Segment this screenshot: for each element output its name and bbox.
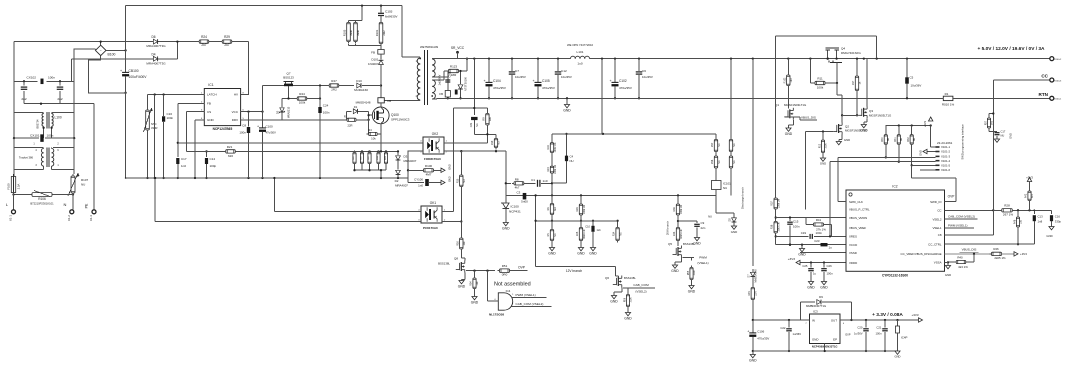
wire CAB_COM (VSEL2) row [945,215,978,220]
svg-text:R17: R17 [852,80,855,85]
svg-text:NU: NU [718,143,721,147]
svg-text:R25: R25 [576,231,579,236]
svg-text:GND: GND [577,252,585,256]
capacitor C3 5n00 [516,191,528,204]
svg-text:+: + [609,79,611,83]
wire AC leg2 down [71,59,73,82]
resistor R19 NU [491,134,501,152]
svg-text:100p: 100p [210,164,217,168]
svg-text:FB: FB [371,51,375,55]
svg-text:R45: R45 [748,291,751,296]
wire aux VCC row [263,84,329,86]
svg-text:C101: C101 [449,71,452,78]
svg-text:R46: R46 [993,247,999,251]
wire XRES row with C19 [776,231,846,239]
capacitor CX102 100n [14,76,74,84]
svg-text:X101-5: X101-5 [941,164,950,168]
svg-text:C102: C102 [619,79,627,83]
transistor Q1 MGSF1N03LT1G (discharge) [775,59,807,120]
gnd Q1 source [785,120,794,136]
svg-text:+ 3.3V / 0.08A: + 3.3V / 0.08A [872,312,903,318]
resistor R38 10k0 1% (VMON lo) [771,209,781,245]
svg-text:100k: 100k [630,297,632,303]
terminal PE X1-3 [85,104,97,221]
svg-text:~: ~ [100,49,102,53]
snubber resistor R101 2M2 [375,21,386,46]
svg-text:FOD8170A0: FOD8170A0 [424,157,441,161]
wire col 155 LATCH to gnd bus [154,95,156,180]
shunt regulator IC100 NCP431 [501,195,521,230]
label IC101 NU [708,181,731,219]
wire OK2 pin3 left stub [407,151,421,183]
svg-text:EXP: EXP [846,334,851,337]
resistor R45 22R [748,277,758,320]
svg-text:4k3 1%: 4k3 1% [958,265,968,269]
wire FB opto feedback row [178,142,421,144]
wire X101-5 SWD_IO/OVP route [912,165,956,201]
wire 12V-branch divider row [534,194,617,266]
svg-text:C105: C105 [542,79,550,83]
svg-text:18R: 18R [451,73,457,77]
svg-text:100n: 100n [47,134,54,138]
net arrow GND (CY100) [441,176,451,184]
resistor R30 NU [882,126,890,159]
svg-text:1n0: 1n0 [418,184,423,188]
svg-text:N: N [64,202,67,207]
svg-text:69k8 1%: 69k8 1% [583,228,586,238]
resistor R9 1k0 [481,108,492,134]
svg-text:C100: C100 [266,125,274,129]
capacitor C7 10u/35V [509,59,526,100]
svg-text:+3V3: +3V3 [1020,252,1027,256]
wire CC_CTRL row [945,243,1035,245]
svg-text:GND: GND [749,359,757,363]
optocoupler OK1 PC8170A0 [418,201,446,230]
svg-text:MGSF1N03LT1G: MGSF1N03LT1G [869,113,892,117]
svg-text:GND: GND [895,355,901,359]
transistor Q6 BSS138L (CAB_COM) [605,267,636,288]
wire VBUS rail (secondary main) [448,57,571,59]
resistor R33 84k5 1% [673,220,683,246]
resistor R46 2k05 1% [989,247,1027,260]
svg-text:PE: PE [85,203,89,208]
resistor R40 4k3 1% [947,254,974,269]
svg-text:C20: C20 [857,326,863,330]
svg-text:100k 1%: 100k 1% [583,204,586,214]
svg-text:VDDD: VDDD [849,261,857,265]
svg-text:R28: R28 [1004,204,1010,208]
svg-text:GND: GND [785,132,793,136]
wire OK1 pin2 down [446,222,461,239]
svg-text:C15: C15 [793,219,799,223]
svg-text:Tracket 386: Tracket 386 [19,156,34,160]
svg-text:IC4P: IC4P [901,336,907,340]
svg-text:+: + [483,79,485,83]
svg-text:NU: NU [708,215,712,219]
capacitor C21 100n [876,320,888,352]
svg-text:EP: EP [833,337,837,341]
svg-text:R105: R105 [343,29,347,36]
svg-text:100R 1%: 100R 1% [554,142,557,153]
wire Q2 gate from IC2 col [806,130,834,209]
wire AC leg1 down [13,42,15,82]
svg-text:+: + [120,69,122,73]
svg-text:470u/35V: 470u/35V [493,86,506,90]
svg-text:C9: C9 [701,221,705,225]
svg-text:(VSEL2): (VSEL2) [635,290,646,294]
transistor Q5 BSS138L (PWM) [668,242,695,257]
svg-text:VBUS_VMON: VBUS_VMON [849,216,867,220]
svg-text:150: 150 [1019,219,1022,224]
gnd Q2 source [836,135,850,145]
svg-text:R48: R48 [1013,219,1016,224]
wire col 602 to sense row [601,59,603,134]
primary GND bus [125,177,408,179]
svg-text:+: + [747,329,749,333]
svg-text:100n: 100n [816,231,823,235]
svg-text:NU: NU [498,141,501,145]
svg-text:390k: 390k [356,29,360,35]
svg-text:RTN: RTN [1039,92,1049,97]
wire PE row [24,103,94,105]
fuse F100 2.5A [7,174,21,194]
connector X101 23-23-2061 header [936,141,953,172]
terminal X100-3 CC [1041,73,1062,82]
svg-text:CX102: CX102 [27,76,37,80]
svg-text:C1: C1 [531,178,535,182]
wire Q4 bypass loop [776,36,877,58]
resistor R21 620 [186,145,354,158]
resistor R48 150 1% [1013,210,1022,245]
capacitor CB100 100uF/400V [120,50,147,92]
svg-text:X100-1: X100-1 [1054,99,1062,101]
wire VCCD/gnd row [776,244,846,246]
svg-text:R54: R54 [470,281,473,286]
svg-text:CYPD1132-16S00: CYPD1132-16S00 [882,274,908,278]
wire VSSA gnd [945,262,952,277]
svg-text:R4: R4 [368,128,372,132]
svg-text:D4: D4 [151,52,155,56]
wire opto feed join [474,133,496,135]
svg-text:SWD_CLK: SWD_CLK [849,200,863,204]
diode D100 NTST30100 (sync rect) [455,70,468,100]
capacitor C8 100n [239,112,250,178]
wire HV startup to IC1 HV pin [241,42,249,95]
svg-text:C106: C106 [757,330,764,334]
varistor R107 NU [68,173,89,196]
discharge col from VBUS [730,59,732,139]
wire IC1 VCC row [241,110,264,112]
svg-text:C16: C16 [167,112,173,116]
svg-text:R8: R8 [515,178,519,182]
svg-text:100k 1%: 100k 1% [777,198,780,208]
svg-text:NU: NU [733,143,736,147]
net label VBUS_DIS (Q1 gate) [784,116,817,120]
svg-text:GND: GND [731,230,737,234]
diode D7 MMSD4148 [748,269,758,283]
svg-text:+3V3: +3V3 [912,313,919,317]
svg-text:GND: GND [844,138,850,142]
svg-text:267 1%: 267 1% [1003,212,1014,216]
net arrow OVP (SWD_IO) [945,194,957,201]
svg-text:100n: 100n [167,116,174,120]
svg-text:VCC: VCC [232,110,239,114]
gnd IC3 rail [749,351,757,363]
svg-text:1u/36V: 1u/36V [793,332,802,336]
svg-text:Q6: Q6 [605,276,609,280]
snubber resistor R105 390k [343,6,363,44]
text Discharge branch [741,187,745,209]
svg-text:MRA4007T3G: MRA4007T3G [146,44,166,48]
resistor R1 R010 1% [934,92,1050,107]
gnd Q6 source [610,288,622,304]
wire secondary top to VBUS rail [437,59,448,80]
svg-text:GND: GND [688,290,696,294]
svg-text:GND: GND [458,285,466,289]
logic gate IC4 NL17SG08 [488,271,513,317]
resistor R13 100k (Q2 gate pulldown) [819,132,827,166]
capacitor C10 12n [585,220,601,256]
resistor bank CS sense R48 R49 R50 R52 R53 [353,151,388,166]
svg-text:X1-2: X1-2 [67,215,71,221]
resistor R11 100k [813,76,838,89]
svg-text:10u/35V: 10u/35V [515,75,526,79]
resistor R6 3k2 [547,195,557,220]
svg-text:22n: 22n [701,226,706,230]
capacitor C16 100n [162,95,174,180]
svg-text:C16: C16 [1055,214,1061,218]
svg-text:MRA5215: MRA5215 [287,106,291,118]
terminal L X1-1 [6,193,16,221]
svg-text:X1-1: X1-1 [9,215,13,221]
capacitor C5 10u/36V [905,59,921,100]
transistor Q8 BSS138L (OVP) [438,256,465,273]
svg-text:R55: R55 [688,270,690,275]
svg-text:R13: R13 [819,143,821,148]
divider col R23 100k 1% [547,164,557,195]
svg-text:L101: L101 [577,50,584,54]
svg-text:GND: GND [820,286,828,290]
wire 12V branch row [536,267,616,273]
wire bridge left vertex to AC cap row [74,49,95,81]
svg-text:R107: R107 [81,178,89,182]
svg-text:HV: HV [234,93,238,97]
svg-text:4k7: 4k7 [515,185,520,189]
wire DRV row [241,119,282,121]
svg-text:NU: NU [1001,134,1005,138]
node junction D4 cathode to line1 [176,40,178,58]
capacitor C16b 330p [1046,210,1061,238]
svg-text:VBUS_DIS: VBUS_DIS [962,248,977,252]
resistor R25 69k8 1% [576,220,586,256]
wire IC1 CS row [186,112,204,152]
svg-text:SWD programming interface: SWD programming interface [961,124,965,160]
diode D9 MMBD0307T1G [800,295,852,321]
svg-text:R38: R38 [771,224,774,229]
svg-text:R47: R47 [331,79,337,83]
resistor R2 22R [344,114,370,127]
svg-text:NU: NU [361,156,363,160]
wire Q6 CAB_COM row [623,283,655,293]
svg-text:NU: NU [619,232,622,236]
resistor R41 27k 1% [806,218,831,237]
svg-text:GND: GND [471,301,479,305]
svg-text:B72210P2301K101: B72210P2301K101 [30,202,54,206]
resistor R123 18R [444,57,468,76]
svg-text:VSSA: VSSA [934,261,942,265]
svg-text:D9: D9 [819,295,823,299]
svg-text:FB: FB [439,92,443,96]
wire primary bottom pin [384,99,420,101]
wire VBUS_DIS net (CC_VREF row) [945,248,992,256]
svg-text:BSS123: BSS123 [283,76,294,80]
svg-text:R18: R18 [547,145,550,150]
svg-text:C25: C25 [802,264,808,268]
svg-text:VSEL2: VSEL2 [933,217,942,221]
svg-text:100k 1%: 100k 1% [680,204,683,214]
wire IC1 GND pin to bus [194,120,204,179]
svg-text:Q5: Q5 [668,242,672,246]
optocoupler OK2 FOD8170A0 [420,132,447,161]
svg-text:1n0: 1n0 [181,164,186,168]
capacitor C15 100n [787,216,800,246]
capacitor CX101 100n [30,134,59,146]
gnd Q3 source [860,118,868,132]
wire VDDD row +3V3 [788,257,846,265]
diode D6 MRA4007T3G [146,35,166,48]
terminal X100-1 RTN [1039,92,1062,101]
svg-text:OK2: OK2 [432,132,439,136]
gnd Q8 source [458,273,466,289]
svg-text:4k7: 4k7 [1031,193,1034,198]
capacitor C22 1u/36V [780,320,801,352]
wire PWM (VSEL1) row [945,223,975,228]
svg-text:VBUS_VREF: VBUS_VREF [849,226,866,230]
capacitor C23 1u [814,239,832,250]
svg-text:1n0/500V: 1n0/500V [439,74,442,85]
svg-text:GND: GND [807,286,815,290]
svg-text:GND: GND [502,227,510,231]
svg-text:X1-3: X1-3 [89,215,93,221]
transistor Q4 DMG7401SFG [826,47,862,67]
wire Q5 PWM row [683,256,709,265]
svg-text:100n: 100n [827,272,834,276]
svg-text:IC4: IC4 [506,289,511,293]
svg-text:C22: C22 [780,326,786,330]
wire CS bank bottom join [353,166,386,179]
svg-text:OK1: OK1 [430,201,437,205]
svg-text:MRA4007: MRA4007 [404,159,417,163]
capacitor CY102 2n2 [21,81,28,103]
svg-text:CC_CTRL: CC_CTRL [928,243,942,247]
svg-text:MRA4007: MRA4007 [395,183,408,187]
wire VSSD row [800,252,846,254]
diode D2 MRA4007 [395,170,409,187]
svg-text:330p: 330p [1055,219,1062,223]
resistor R47 2R2 [327,79,341,92]
svg-text:C7: C7 [515,69,519,73]
resistor R54 10k [470,271,480,305]
svg-text:0R0: 0R0 [502,272,508,276]
wire X101-2 gnd [919,149,936,156]
wire CC net right [993,209,1051,211]
svg-text:10k: 10k [371,136,376,140]
wire choke out to CX101 row [13,113,76,140]
wire prog pullup rail +3V3 [885,117,933,147]
svg-text:R42: R42 [1025,193,1028,198]
svg-text:NCP1247B65: NCP1247B65 [213,127,233,131]
svg-text:L100: L100 [55,116,62,120]
svg-text:4M7: 4M7 [426,172,432,176]
svg-text:R29: R29 [224,35,230,39]
net label SR_VCC [451,46,465,59]
svg-text:R101: R101 [375,29,379,36]
svg-text:R32: R32 [908,137,910,142]
svg-text:GND: GND [820,162,826,166]
wire CC to connector [993,80,1050,210]
svg-text:MMSD4148: MMSD4148 [356,101,371,105]
svg-text:R33: R33 [673,231,676,236]
svg-text:F100: F100 [7,183,11,190]
svg-text:0R0: 0R0 [991,120,993,125]
capacitor C14 100p [205,150,217,179]
svg-text:NU: NU [901,138,903,142]
svg-text:R57: R57 [711,142,714,147]
svg-text:NU: NU [353,156,355,160]
svg-text:R26: R26 [576,207,579,212]
text SWD programming interface [961,124,965,160]
capacitor C17b NU [989,130,1013,143]
svg-text:X100-2: X100-2 [1054,59,1062,61]
svg-text:1n0: 1n0 [543,179,548,183]
wire IC1 FB row [178,103,205,157]
common mode choke TR (Tracket 386) [14,138,74,176]
power pin symbol IC4P [896,320,908,351]
svg-text:GND: GND [812,337,818,341]
capacitor C31 NU [470,117,479,134]
svg-text:DMG7401SFG: DMG7401SFG [841,51,862,55]
svg-text:C6: C6 [642,69,646,73]
diode D3 MRA4007 [396,150,417,169]
svg-text:IC100: IC100 [511,204,520,208]
gnd symbol secondary bus [563,98,571,112]
gnd Q5 source [671,258,681,274]
svg-text:1k0: 1k0 [790,78,793,83]
capacitor C20 1u/36V [854,320,869,352]
svg-text:OUT: OUT [831,318,837,322]
wire 3V3 input rail [752,319,801,321]
svg-text:CB100: CB100 [129,69,139,73]
svg-text:C31: C31 [470,122,473,127]
capacitor C26 100n [820,263,833,290]
transistor Q100 SPP11N60C3 [372,103,409,124]
svg-text:MURA160: MURA160 [354,88,368,92]
svg-text:BSS138L: BSS138L [683,242,695,246]
svg-text:100n: 100n [48,76,55,80]
inductor L101 WE OPN 744772010 [567,43,594,66]
svg-text:B82734: B82734 [36,119,40,129]
svg-text:NTC: NTC [151,122,157,126]
svg-text:NU: NU [718,160,721,164]
svg-text:NU: NU [733,160,736,164]
capacitor C100 47u/50V [257,86,276,179]
svg-text:SPP11N60C3: SPP11N60C3 [391,118,410,122]
svg-text:NU: NU [914,138,916,142]
wire 3V3 output rail [852,312,923,322]
svg-text:R19: R19 [491,140,494,145]
svg-text:D1: D1 [354,105,358,109]
svg-text:OVP: OVP [948,194,955,198]
